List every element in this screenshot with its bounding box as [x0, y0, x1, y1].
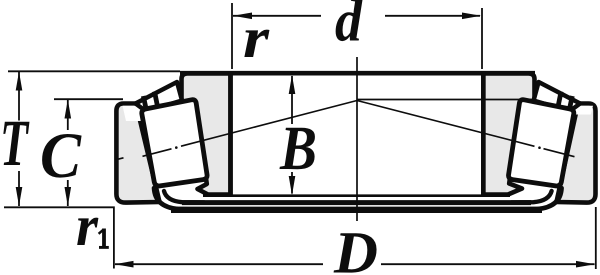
cone back face line	[203, 194, 510, 197]
load line right	[357, 101, 535, 147]
outer ring (cup) right	[557, 104, 596, 203]
C top extension line	[54, 98, 123, 100]
dimension C: top arrow	[65, 100, 72, 119]
dimension T: line lower segment	[18, 171, 20, 206]
dimension D: line left segment	[115, 263, 323, 265]
roller + cage left	[136, 82, 208, 210]
dimension d: left arrow	[233, 13, 252, 20]
horizontal reference line right	[357, 99, 534, 101]
dimension T: line upper segment	[18, 72, 20, 121]
load line right outer segment	[544, 149, 575, 157]
load line right dot	[538, 146, 541, 149]
svg-text:r: r	[243, 5, 269, 70]
cup pocket left	[123, 106, 144, 121]
dimension d: line left segment	[233, 15, 321, 17]
dimension d: right extension line	[481, 8, 483, 69]
axis center line	[356, 57, 358, 221]
dimension T: bottom arrow	[16, 187, 23, 206]
cage bottom band lower	[171, 207, 542, 213]
dimension B: line lower segment	[291, 172, 293, 194]
dimension B: top arrow	[289, 75, 296, 94]
svg-text:D: D	[333, 220, 378, 275]
roller + cage right (mirrored)	[509, 82, 581, 210]
dimension D: left arrow	[115, 261, 134, 268]
load line left outer segment	[143, 149, 172, 157]
bore line right	[481, 73, 486, 195]
dimension D: right extension line	[595, 207, 597, 269]
inner ring (cone) left	[182, 74, 231, 195]
dimension D: right arrow	[576, 261, 595, 268]
dimension C: line upper segment	[67, 100, 69, 130]
dimension D: line right segment	[381, 263, 595, 265]
T top extension line	[8, 70, 180, 72]
bottom extension line (T/C datum)	[4, 207, 114, 268]
outer ring (cup) left	[116, 104, 159, 203]
dimension d: left extension line	[231, 3, 233, 69]
svg-text:C: C	[40, 120, 82, 192]
top face line (cone front faces)	[180, 71, 535, 76]
svg-text:B: B	[279, 113, 317, 183]
dimension C: bottom arrow	[65, 187, 72, 206]
dimension T: top arrow	[16, 72, 23, 91]
dimension d: line right segment	[385, 15, 480, 17]
load line left dot	[175, 146, 178, 149]
dimension d: right arrow	[462, 13, 481, 20]
load line left dash	[118, 158, 124, 159]
svg-text:d: d	[335, 0, 363, 54]
inner ring (cone) right	[483, 74, 534, 195]
cup pocket right	[574, 106, 594, 115]
svg-text:r: r	[76, 193, 98, 258]
dimension B: line upper segment	[291, 76, 293, 124]
dimension C: line lower segment	[67, 180, 69, 206]
load line left	[181, 101, 357, 147]
svg-text:T: T	[0, 107, 30, 180]
label r1 subscript	[99, 229, 109, 248]
dimension B: bottom arrow	[289, 176, 296, 195]
bore line left	[228, 73, 233, 195]
cage bottom band upper	[182, 200, 531, 205]
